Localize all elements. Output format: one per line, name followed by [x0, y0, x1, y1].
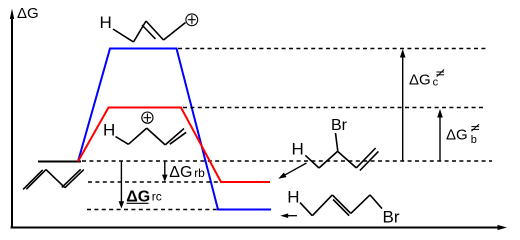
- red TS dashed level: [183, 107, 485, 109]
- label dGrb: [169, 164, 205, 181]
- middle cation structure bonds: [116, 128, 187, 145]
- svg-text:Br: Br: [383, 207, 400, 226]
- arrow dGrb: [162, 162, 168, 182]
- blue pathway curve: [78, 49, 271, 210]
- reactant level dashed line: [82, 160, 492, 162]
- 3-bromo-1-butene bonds: [305, 133, 378, 171]
- arrow dGb: [437, 109, 443, 161]
- arrow dGrc: [119, 162, 125, 209]
- svg-text:ΔG: ΔG: [446, 126, 468, 143]
- top cation plus symbol: [186, 14, 198, 26]
- svg-text:ΔG: ΔG: [17, 5, 39, 22]
- red pathway curve: [78, 108, 270, 183]
- butadiene structure: [23, 169, 84, 189]
- svg-text:ΔG: ΔG: [409, 72, 431, 89]
- svg-text:H: H: [292, 139, 304, 158]
- 1-bromo-2-butene bonds: [300, 195, 382, 216]
- x-axis: [11, 225, 508, 230]
- svg-text:H: H: [287, 187, 299, 206]
- svg-text:rc: rc: [152, 190, 162, 204]
- svg-text:H: H: [100, 13, 112, 32]
- y-axis: [10, 9, 14, 228]
- svg-text:c: c: [433, 76, 439, 88]
- svg-text:H: H: [103, 121, 115, 140]
- svg-text:ΔG: ΔG: [169, 164, 192, 181]
- label dGc: [409, 70, 444, 89]
- label dGb: [446, 124, 479, 146]
- arrow dGc: [400, 49, 406, 161]
- svg-text:Br: Br: [331, 117, 348, 134]
- svg-text:rb: rb: [194, 166, 205, 180]
- blue TS dashed level: [178, 48, 486, 50]
- blue product dashed level: [87, 209, 218, 211]
- svg-text:b: b: [471, 134, 477, 146]
- pointer arrow to blue product level: [280, 213, 297, 218]
- pointer arrow to red product level: [278, 163, 306, 179]
- red product dashed level: [88, 181, 221, 183]
- middle cation plus symbol: [142, 112, 153, 123]
- top cation structure bonds: [113, 21, 186, 42]
- reactant level line: [38, 161, 81, 163]
- label dGrc: [126, 189, 162, 206]
